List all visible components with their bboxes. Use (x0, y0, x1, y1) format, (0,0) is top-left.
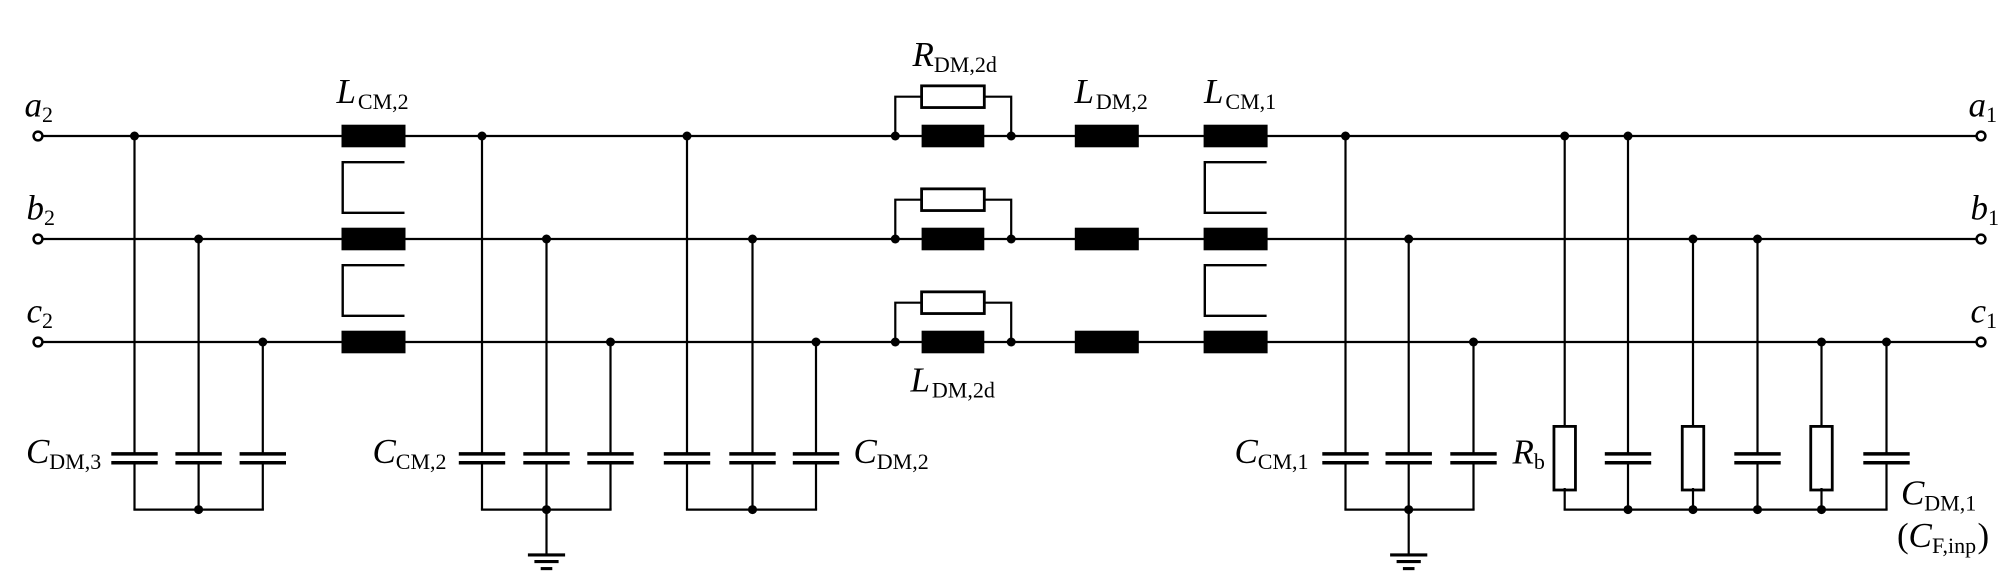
label L_DM,2d (910, 361, 995, 403)
svg-text:R: R (1512, 432, 1534, 471)
svg-text:CM,2: CM,2 (358, 89, 409, 114)
label C_DM,3 (26, 432, 101, 474)
wire phase a bus (a2 to a1) (42, 135, 1976, 137)
svg-text:1: 1 (1986, 102, 1997, 127)
label a1 (1969, 86, 1998, 128)
junction phase a tap of C_DM,1 (1624, 132, 1633, 141)
resistor R_DM,2d phase a (922, 86, 985, 108)
junction phase c tap of C_CM,1 (1469, 338, 1478, 347)
wire C_DM,3 column a (tap to capacitor) (133, 136, 135, 453)
inductor L_CM,2 winding a (342, 125, 406, 148)
label C_CM,1 (1235, 432, 1309, 474)
label b1 (1971, 189, 2000, 231)
wire C_DM,1 column c (tap to capacitor) (1885, 342, 1887, 453)
svg-text:L: L (910, 361, 930, 400)
junction phase a R_DM,2d right node (1007, 132, 1016, 141)
capacitor C_DM,2 unit b (729, 454, 775, 463)
junction phase c tap of C_CM,2 (606, 338, 615, 347)
label L_CM,1 (1203, 72, 1276, 114)
capacitor C_CM,2 unit b (523, 454, 569, 463)
wire R_b column b (tap to resistor) (1692, 239, 1694, 428)
wire C_DM,3 column b (tap to capacitor) (198, 239, 200, 453)
inductor L_DM,2d phase c (922, 331, 985, 354)
junction phase b tap of C_CM,2 (542, 235, 551, 244)
svg-text:R: R (912, 35, 934, 74)
terminal b2 (34, 235, 43, 244)
wire R_b column a (resistor to bus) (1564, 488, 1566, 510)
wire C_DM,3 column b (capacitor to bus) (198, 464, 200, 509)
svg-text:C: C (854, 432, 878, 471)
wire C_DM,2 column b (capacitor to bus) (751, 464, 753, 509)
junction phase b tap of C_DM,1 (1753, 235, 1762, 244)
wire C_DM,2 column c (capacitor to bus) (815, 464, 817, 509)
inductor L_DM,2 winding a (1075, 125, 1139, 148)
core L_CM,1 coupling b-c (1205, 265, 1267, 316)
inductor L_DM,2d phase b (922, 228, 985, 251)
svg-text:): ) (1978, 516, 1990, 555)
label R_b (1512, 432, 1545, 474)
inductor L_DM,2 winding b (1075, 228, 1139, 251)
wire R_DM,2d phase c right connector (984, 303, 1011, 342)
junction C_CM,1 bus node (1404, 505, 1413, 514)
svg-text:F,inp: F,inp (1932, 533, 1976, 558)
svg-text:(: ( (1897, 516, 1909, 555)
junction phase c R_DM,2d left node (891, 338, 900, 347)
wire R_b column c (resistor to bus) (1820, 488, 1822, 510)
junction C_CM,2 bus node (542, 505, 551, 514)
svg-text:b: b (1534, 449, 1545, 474)
capacitor C_DM,1 unit a (1605, 454, 1651, 463)
svg-text:1: 1 (1988, 205, 1999, 230)
label L_DM,2 (1074, 72, 1148, 114)
svg-text:DM,2: DM,2 (877, 449, 929, 474)
svg-text:b: b (27, 189, 45, 228)
junction R_b/C_DM,1 bus node (1624, 505, 1633, 514)
resistor R_DM,2d phase c (922, 292, 985, 314)
svg-text:L: L (1074, 72, 1094, 111)
svg-text:CM,1: CM,1 (1258, 449, 1309, 474)
wire R_DM,2d phase b right connector (984, 200, 1011, 239)
terminal c1 (1977, 338, 1986, 347)
inductor L_DM,2d phase a (922, 125, 985, 148)
capacitor C_DM,1 unit c (1863, 454, 1909, 463)
junction R_b/C_DM,1 bus node (1817, 505, 1826, 514)
inductor L_CM,1 winding b (1204, 228, 1268, 251)
junction phase a tap of C_DM,2 (683, 132, 692, 141)
capacitor C_CM,2 unit a (459, 454, 505, 463)
junction phase a tap of C_CM,2 (478, 132, 487, 141)
terminal a2 (34, 132, 43, 141)
wire C_DM,3 column c (capacitor to bus) (262, 464, 264, 509)
wire C_CM,2 column c (capacitor to bus) (609, 464, 611, 509)
svg-text:a: a (1969, 86, 1987, 125)
junction phase b tap of C_DM,3 (194, 235, 203, 244)
wire C_CM,2 column a (capacitor to bus) (481, 464, 483, 509)
inductor L_CM,1 winding c (1204, 331, 1268, 354)
svg-text:L: L (1203, 72, 1223, 111)
wire R_DM,2d phase a left connector (895, 97, 921, 136)
junction phase c tap of C_DM,3 (258, 338, 267, 347)
svg-text:2: 2 (44, 205, 55, 230)
junction R_b/C_DM,1 bus node (1753, 505, 1762, 514)
svg-text:b: b (1971, 189, 1989, 228)
resistor R_b phase b (1682, 426, 1704, 490)
terminal a1 (1977, 132, 1986, 141)
label L_CM,2 (336, 72, 409, 114)
svg-text:C: C (1901, 474, 1925, 513)
wire C_DM,2 bottom bus (686, 509, 817, 511)
wire C_DM,1 column a (tap to capacitor) (1627, 136, 1629, 453)
ground symbol (C_CM,2) (528, 555, 565, 569)
label c2 (27, 292, 54, 334)
junction phase b tap of C_CM,1 (1404, 235, 1413, 244)
wire C_CM,1 column a (capacitor to bus) (1344, 464, 1346, 509)
inductor L_CM,2 winding b (342, 228, 406, 251)
core L_CM,2 coupling a-b (343, 162, 405, 213)
junction phase c R_DM,2d right node (1007, 338, 1016, 347)
svg-text:C: C (1235, 432, 1259, 471)
wire C_DM,3 column c (tap to capacitor) (262, 342, 264, 453)
junction phase b tap of C_DM,2 (748, 235, 757, 244)
wire C_CM,2 column c (tap to capacitor) (609, 342, 611, 453)
label (C_F,inp) (1897, 516, 1989, 558)
capacitor C_DM,2 unit c (793, 454, 839, 463)
junction phase a R_DM,2d left node (891, 132, 900, 141)
wire C_DM,2 column b (tap to capacitor) (751, 239, 753, 453)
wire C_CM,1 column a (tap to capacitor) (1344, 136, 1346, 453)
label C_DM,1 (1901, 474, 1976, 516)
svg-text:CM,2: CM,2 (396, 449, 447, 474)
junction phase c tap of R_b (1817, 338, 1826, 347)
svg-text:DM,3: DM,3 (49, 449, 101, 474)
capacitor C_CM,1 unit a (1322, 454, 1368, 463)
wire C_CM,1 column c (capacitor to bus) (1472, 464, 1474, 509)
label C_CM,2 (373, 432, 447, 474)
capacitor C_DM,3 unit c (240, 454, 286, 463)
svg-text:CM,1: CM,1 (1225, 89, 1276, 114)
wire C_CM,2 ground stem (545, 510, 547, 555)
svg-text:1: 1 (1986, 308, 1997, 333)
wire C_CM,2 column a (tap to capacitor) (481, 136, 483, 453)
wire R_b/C_DM,1 bottom bus (1564, 509, 1888, 511)
wire R_b column c (tap to resistor) (1820, 342, 1822, 428)
terminal c2 (34, 338, 43, 347)
svg-text:C: C (1909, 516, 1933, 555)
svg-text:c: c (1971, 292, 1987, 331)
wire C_DM,1 column a (capacitor to bus) (1627, 464, 1629, 509)
wire phase c bus (c2 to c1) (42, 341, 1976, 343)
junction R_b/C_DM,1 bus node (1689, 505, 1698, 514)
junction phase c tap of C_DM,1 (1882, 338, 1891, 347)
svg-text:DM,2d: DM,2d (932, 377, 995, 402)
svg-text:DM,2: DM,2 (1096, 89, 1148, 114)
wire R_DM,2d phase b left connector (895, 200, 921, 239)
wire C_DM,2 column a (tap to capacitor) (686, 136, 688, 453)
wire C_DM,1 column b (capacitor to bus) (1756, 464, 1758, 509)
label a2 (25, 86, 54, 128)
inductor L_CM,1 winding a (1204, 125, 1268, 148)
wire C_CM,2 column b (capacitor to bus) (545, 464, 547, 509)
core L_CM,2 coupling b-c (343, 265, 405, 316)
wire R_DM,2d phase c left connector (895, 303, 921, 342)
capacitor C_DM,2 unit a (664, 454, 710, 463)
capacitor C_DM,3 unit b (175, 454, 221, 463)
junction phase b R_DM,2d right node (1007, 235, 1016, 244)
wire R_DM,2d phase a right connector (984, 97, 1011, 136)
wire C_CM,1 column c (tap to capacitor) (1472, 342, 1474, 453)
svg-text:DM,1: DM,1 (1924, 490, 1976, 515)
junction C_DM,3 bus node (194, 505, 203, 514)
capacitor C_CM,1 unit b (1386, 454, 1432, 463)
label R_DM,2d (912, 35, 997, 77)
wire C_DM,3 bottom bus (133, 509, 264, 511)
capacitor C_CM,2 unit c (587, 454, 633, 463)
wire C_DM,1 column b (tap to capacitor) (1756, 239, 1758, 453)
svg-text:DM,2d: DM,2d (934, 52, 997, 77)
junction C_DM,2 bus node (748, 505, 757, 514)
junction phase b R_DM,2d left node (891, 235, 900, 244)
junction phase a tap of C_CM,1 (1341, 132, 1350, 141)
wire C_CM,1 ground stem (1408, 510, 1410, 555)
wire C_CM,2 bottom bus (481, 509, 612, 511)
svg-text:C: C (373, 432, 397, 471)
resistor R_DM,2d phase b (922, 189, 985, 211)
resistor R_b phase a (1554, 426, 1576, 490)
wire phase b bus (b2 to b1) (42, 238, 1976, 240)
junction phase a tap of C_DM,3 (130, 132, 139, 141)
core L_CM,1 coupling a-b (1205, 162, 1267, 213)
wire C_DM,2 column a (capacitor to bus) (686, 464, 688, 509)
inductor L_DM,2 winding c (1075, 331, 1139, 354)
wire C_DM,3 column a (capacitor to bus) (133, 464, 135, 509)
svg-text:c: c (27, 292, 43, 331)
inductor L_CM,2 winding c (342, 331, 406, 354)
terminal b1 (1977, 235, 1986, 244)
label C_DM,2 (854, 432, 929, 474)
svg-text:L: L (336, 72, 356, 111)
label c1 (1971, 292, 1998, 334)
junction phase a tap of R_b (1560, 132, 1569, 141)
wire C_CM,1 column b (capacitor to bus) (1408, 464, 1410, 509)
wire C_CM,2 column b (tap to capacitor) (545, 239, 547, 453)
wire C_DM,1 column c (capacitor to bus) (1885, 464, 1887, 509)
wire R_b column b (resistor to bus) (1692, 488, 1694, 510)
capacitor C_DM,3 unit a (111, 454, 157, 463)
wire C_DM,2 column c (tap to capacitor) (815, 342, 817, 453)
ground symbol (C_CM,1) (1390, 555, 1427, 569)
junction phase b tap of R_b (1689, 235, 1698, 244)
wire C_CM,1 column b (tap to capacitor) (1408, 239, 1410, 453)
svg-text:a: a (25, 86, 43, 125)
wire R_b column a (tap to resistor) (1564, 136, 1566, 428)
resistor R_b phase c (1811, 426, 1833, 490)
label b2 (27, 189, 56, 231)
capacitor C_DM,1 unit b (1734, 454, 1780, 463)
wire C_CM,1 bottom bus (1344, 509, 1474, 511)
svg-text:C: C (26, 432, 50, 471)
junction phase c tap of C_DM,2 (812, 338, 821, 347)
svg-text:2: 2 (42, 308, 53, 333)
svg-text:2: 2 (42, 102, 53, 127)
capacitor C_CM,1 unit c (1450, 454, 1496, 463)
